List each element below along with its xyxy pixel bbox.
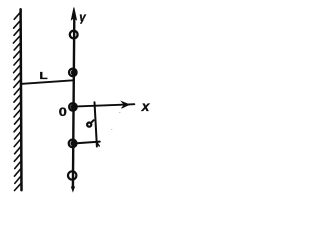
svg-text:L: L [39, 70, 48, 82]
svg-text:0: 0 [59, 106, 67, 119]
svg-text:x: x [141, 98, 151, 114]
svg-text:v: v [79, 12, 86, 24]
